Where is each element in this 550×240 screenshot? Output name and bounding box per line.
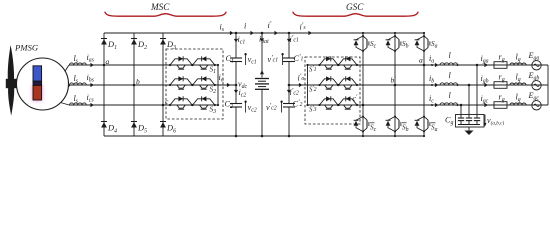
svg-text:a: a [106,57,110,66]
svg-text:MSC: MSC [150,2,170,12]
svg-text:S′2: S′2 [309,85,317,93]
svg-text:b: b [136,77,140,86]
svg-text:PMSG: PMSG [14,43,39,53]
svg-text:GSC: GSC [346,2,364,12]
svg-text:S′3: S′3 [309,105,317,113]
svg-text:S′1: S′1 [309,65,317,73]
